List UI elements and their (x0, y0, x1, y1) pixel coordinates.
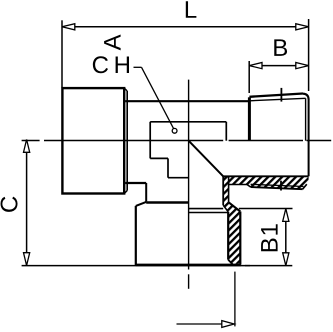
barrel outer wall in section (229, 185, 251, 188)
section hatching: branch wall and flare (223, 176, 240, 263)
dimension B1 extension line bottom (245, 265, 292, 267)
dimension L arrowhead left (62, 24, 75, 30)
dimension L line (62, 26, 309, 28)
dimension B1 line (285, 209, 287, 266)
dimension B arrowhead right (296, 63, 309, 69)
dimension B arrowhead left (249, 63, 262, 69)
male thread crest line (249, 94, 303, 97)
flare chamfer diagonal (229, 202, 241, 211)
branch collar chamfer (136, 202, 146, 206)
branch neck edge (145, 183, 147, 202)
female thread exit chamfer (228, 260, 232, 265)
dimension L extension line right (308, 19, 310, 91)
dimension C arrowhead bottom (24, 253, 30, 266)
male thread root line bottom (251, 184, 304, 186)
male thread root line (249, 98, 305, 140)
label L (186, 1, 197, 18)
branch bottom face (136, 264, 241, 267)
gauge plane tick top (280, 88, 282, 102)
dimension L extension line left (61, 20, 63, 87)
bottom reference arrowhead (222, 321, 234, 328)
section hatching: lower wall of horizontal barrel (223, 176, 308, 189)
label CH (93, 56, 129, 73)
left body face chamfer line (125, 88, 128, 193)
label A rotated (104, 34, 121, 50)
dimension C extension line bottom (22, 265, 250, 267)
male thread crest line bottom (251, 184, 307, 189)
broken-out section boundary staircase (150, 122, 188, 178)
male thread end face (308, 99, 310, 176)
vertical centerline of branch axis (188, 80, 190, 289)
left body outline (62, 88, 124, 193)
female thread minor line (227, 212, 229, 260)
dimension B1 extension line top (239, 208, 293, 210)
dimension B1 arrowhead top (283, 209, 289, 222)
branch collar left edge (135, 206, 137, 265)
gauge plane tick bottom (280, 181, 282, 191)
male thread end corner round (303, 94, 309, 100)
counterbore chamfer diagonal (223, 205, 228, 212)
branch neck outer line in section (228, 176, 230, 202)
dimension C arrowhead top (24, 140, 30, 153)
dimension B line (249, 65, 308, 67)
label C rotated (1, 197, 18, 212)
bottom reference extension line (234, 272, 236, 327)
barrel bottom outline (125, 182, 146, 184)
leader dot on hex pocket (172, 128, 177, 133)
barrel bore line in section (223, 175, 308, 177)
dimension C line (26, 140, 28, 266)
bottom reference arrow line (177, 323, 223, 325)
counterbore edge line (189, 208, 224, 210)
dimension L arrowhead right (296, 24, 309, 30)
leader line from CH label (134, 67, 174, 129)
label B1 rotated (261, 224, 278, 251)
barrel top outline (125, 100, 249, 102)
internal hex pocket outline (150, 122, 226, 141)
label B (274, 39, 287, 56)
dimension B1 arrowhead bottom (283, 253, 289, 266)
branch collar top face (146, 201, 188, 204)
branch neck bore line in section (222, 176, 224, 205)
female thread start edge line (189, 212, 229, 214)
branch outer wall in section (239, 212, 241, 265)
horizontal centerline of main axis (22, 140, 332, 142)
male thread start face (248, 97, 251, 141)
dimension B extension line left (248, 61, 250, 93)
gusset diagonal edge (189, 141, 224, 177)
